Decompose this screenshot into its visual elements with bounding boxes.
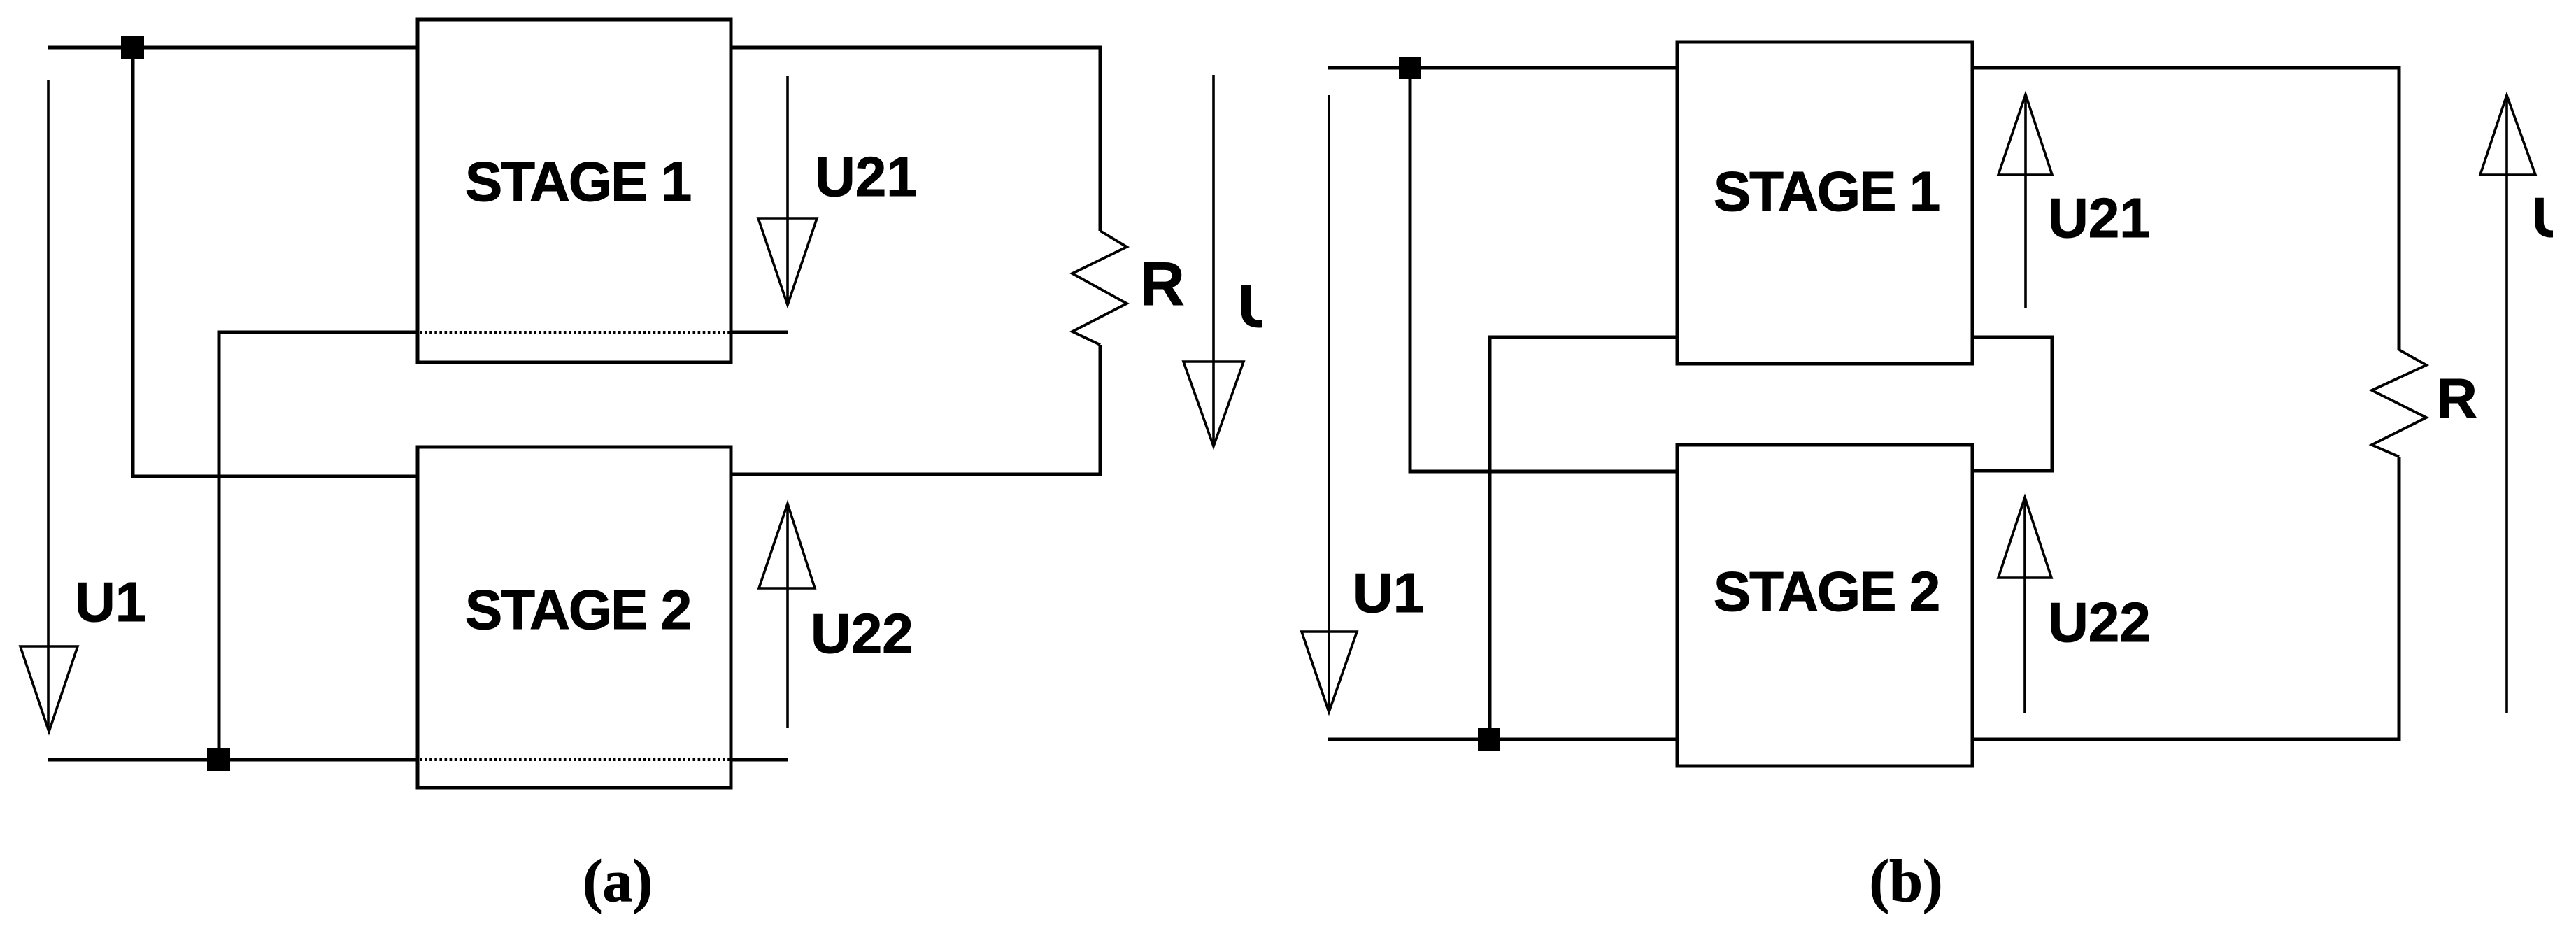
wire STAGE2 lower output stub (a) (731, 758, 788, 762)
svg-text:U22: U22 (811, 602, 913, 665)
svg-text:R: R (1140, 249, 1185, 318)
svg-text:U21: U21 (2048, 187, 2151, 249)
dotted internal line STAGE 2 (a) (420, 758, 730, 761)
voltage arrow U22 (b) (1998, 497, 2051, 713)
label U clipped (b) (2532, 186, 2573, 248)
svg-text:R: R (2437, 367, 2477, 429)
svg-text:(b): (b) (1869, 847, 1942, 914)
wire top net (b) (1328, 66, 1677, 70)
svg-text:U1: U1 (1353, 562, 1424, 624)
node junction bottom (b) (1478, 728, 1500, 751)
svg-text:STAGE 1: STAGE 1 (1714, 160, 1940, 222)
node junction top (b) (1399, 57, 1421, 79)
node junction top (a) (121, 36, 144, 59)
wire STAGE1 lower output stub (a) (731, 331, 788, 334)
svg-text:STAGE 1: STAGE 1 (465, 150, 691, 213)
wire bottom junction riser to STAGE1 lower input (a) (219, 332, 418, 760)
wire top net (a) (48, 46, 418, 50)
svg-text:U21: U21 (815, 145, 918, 208)
block STAGE 1 (b) (1677, 42, 1972, 364)
wire bottom net (a) (48, 758, 418, 762)
wire junction drop to STAGE2 upper input (a) (133, 48, 418, 476)
wire STAGE1 top output to resistor (b) (1972, 68, 2399, 350)
wire junction drop to STAGE2 upper input (b) (1410, 68, 1677, 471)
label U clipped (a) (1238, 273, 1281, 340)
svg-text:STAGE 2: STAGE 2 (1714, 560, 1939, 623)
block STAGE 2 (b) (1677, 445, 1972, 766)
current arrow U (b) (2480, 95, 2535, 713)
block STAGE 1 (a) (418, 20, 731, 362)
wire series link STAGE1 output to STAGE2 input (b) (1972, 337, 2052, 471)
resistor R (b) (2372, 350, 2426, 457)
svg-text:U22: U22 (2048, 591, 2151, 653)
dotted internal line STAGE 1 (a) (420, 331, 730, 334)
voltage arrow U1 (a) (20, 80, 78, 732)
voltage arrow U22 (a) (759, 504, 815, 728)
voltage arrow U1 (b) (1302, 95, 1357, 712)
current arrow U (a) (1183, 75, 1244, 446)
wire bottom net (b) (1328, 738, 1677, 741)
voltage arrow U21 (a) (758, 76, 817, 305)
wire STAGE2 output to resistor bottom (b) (1972, 457, 2399, 739)
voltage arrow U21 (b) (1998, 94, 2052, 308)
resistor R (a) (1072, 231, 1127, 345)
node junction bottom (a) (207, 748, 230, 771)
svg-text:(a): (a) (583, 847, 653, 914)
block STAGE 2 (a) (418, 447, 731, 788)
wire resistor bottom to STAGE2 output (a) (731, 345, 1100, 474)
wire STAGE1 top output to resistor (a) (731, 48, 1100, 231)
svg-text:STAGE 2: STAGE 2 (465, 578, 690, 641)
wire bottom junction riser to STAGE1 lower input (b) (1490, 337, 1677, 739)
svg-text:U1: U1 (75, 571, 146, 633)
